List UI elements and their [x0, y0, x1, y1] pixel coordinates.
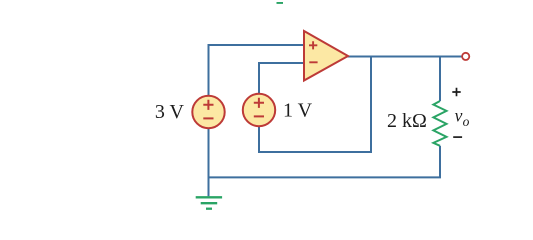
svg-text:1 V: 1 V: [283, 100, 313, 122]
svg-text:2 kΩ: 2 kΩ: [387, 110, 427, 132]
svg-text:vo: vo: [455, 105, 470, 129]
svg-text:3 V: 3 V: [155, 101, 185, 123]
